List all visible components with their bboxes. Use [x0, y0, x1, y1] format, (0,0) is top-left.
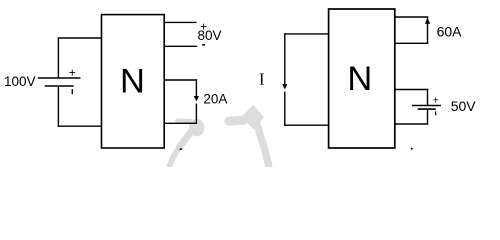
svg-text:N: N	[120, 63, 145, 101]
svg-text:50V: 50V	[451, 98, 477, 114]
wire: N1 port2 top stub	[165, 79, 198, 81]
svg-text:N: N	[347, 60, 372, 98]
wire: V1 top to N1 left	[58, 37, 102, 39]
wire: vertical below V2	[427, 109, 429, 125]
wire: left loop vertical upper	[284, 33, 286, 84]
wire: port2 right vertical upper	[195, 79, 197, 96]
network N1 box	[102, 15, 165, 148]
svg-text:I: I	[259, 70, 265, 89]
voltage source V1 100V top plate	[38, 77, 81, 79]
wire: V1 bottom to N1 left	[58, 125, 102, 127]
voltage source V2 50V bottom plate	[418, 108, 436, 110]
network N2 box	[329, 9, 395, 148]
wire: vertical above V2	[427, 89, 429, 106]
V2 minus tick	[435, 112, 437, 116]
arrowhead 20A current down	[194, 96, 199, 102]
wire: N2 port2 top stub	[395, 89, 428, 91]
stray dot left	[180, 148, 182, 150]
wire: N2 left loop top	[284, 33, 329, 35]
wire: left vertical below V1	[57, 86, 59, 127]
svg-text:20A: 20A	[203, 91, 227, 106]
wire: N2 port1 top stub	[395, 16, 428, 18]
svg-text:80V: 80V	[198, 28, 222, 43]
port1 minus sign	[202, 44, 205, 46]
wire: port1 right vertical	[427, 17, 429, 44]
wire: left loop vertical lower	[284, 92, 286, 126]
wire: N2 port2 bottom stub	[395, 123, 428, 125]
V1 minus tick	[71, 89, 73, 94]
wire: port2 right vertical lower	[195, 104, 197, 125]
stray dot right	[411, 148, 413, 150]
svg-text:+: +	[433, 96, 439, 107]
wire: left vertical above V1	[57, 37, 59, 78]
watermark	[170, 107, 269, 167]
arrowhead 60A current up	[425, 18, 430, 24]
wire: N2 port1 bottom stub	[395, 42, 428, 44]
wire: N2 left loop bottom	[284, 124, 329, 126]
voltage source V1 100V bottom plate	[45, 85, 74, 87]
voltage source V2 50V top plate	[412, 105, 441, 107]
svg-text:+: +	[69, 66, 76, 80]
svg-text:100V: 100V	[4, 74, 36, 89]
svg-text:60A: 60A	[437, 24, 463, 40]
wire: N1 port1 plus stub	[165, 21, 197, 23]
arrowhead I current down	[282, 84, 287, 90]
wire: N1 port2 bottom stub	[165, 122, 198, 124]
wire: N1 port1 minus stub	[165, 45, 198, 47]
